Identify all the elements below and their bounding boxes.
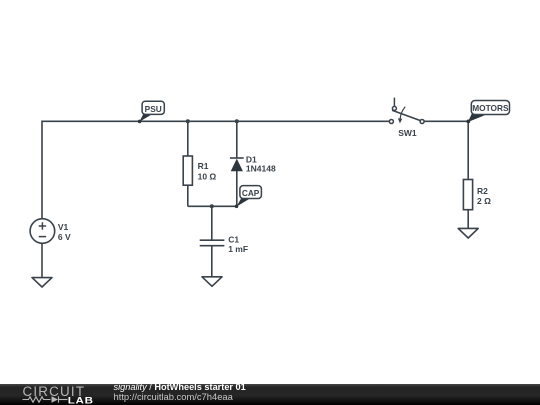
svg-text:LAB: LAB <box>68 397 94 405</box>
wire top rail right segment + R2 branch <box>424 121 468 179</box>
resistor R1 <box>183 156 192 185</box>
svg-text:PSU: PSU <box>145 104 162 114</box>
svg-text:http://circuitlab.com/c7h4eaa: http://circuitlab.com/c7h4eaa <box>114 391 234 402</box>
net flag CAP <box>235 186 262 209</box>
R2 value labels <box>477 186 491 206</box>
voltage source V1 <box>30 219 55 244</box>
svg-text:V1: V1 <box>58 222 69 232</box>
wire C1 top <box>211 206 213 240</box>
ground (V1) <box>32 278 52 287</box>
V1 value labels <box>58 222 71 242</box>
capacitor C1 <box>200 240 225 246</box>
svg-text:1N4148: 1N4148 <box>246 164 276 174</box>
switch SW1 <box>389 98 424 124</box>
diode D1 <box>230 158 244 171</box>
net flag MOTORS <box>466 101 509 124</box>
wire C1 to ground <box>211 246 213 277</box>
wire V1 to ground <box>41 243 43 277</box>
svg-text:CAP: CAP <box>242 188 260 198</box>
wire R2 to ground <box>467 210 469 229</box>
svg-text:2 Ω: 2 Ω <box>477 196 491 206</box>
svg-text:1 mF: 1 mF <box>228 244 248 254</box>
net flag PSU <box>138 101 165 123</box>
svg-text:C1: C1 <box>228 235 239 245</box>
svg-text:SW1: SW1 <box>398 128 417 138</box>
wire R1 top <box>187 121 189 156</box>
svg-text:R1: R1 <box>198 161 209 171</box>
svg-text:6 V: 6 V <box>58 232 71 242</box>
wire D1 bottom <box>236 171 238 207</box>
wire R1 bottom <box>187 185 189 206</box>
svg-text:R2: R2 <box>477 186 488 196</box>
R1 value labels <box>198 161 217 181</box>
junction node (D1 / top rail) <box>235 119 239 123</box>
svg-text:10 Ω: 10 Ω <box>198 171 217 181</box>
junction node (C1 / bottom wire) <box>210 204 214 208</box>
wire top rail left segment + V1 branch <box>42 121 390 219</box>
resistor R2 <box>463 180 472 210</box>
svg-text:MOTORS: MOTORS <box>472 103 509 113</box>
ground (C1) <box>202 277 222 287</box>
ground (R2) <box>458 228 478 238</box>
CircuitLab logo resistor-diode squiggle <box>23 396 68 402</box>
D1 value labels <box>246 155 276 174</box>
wire D1 top <box>236 121 238 158</box>
wire bottom horizontal CAP net <box>188 205 237 207</box>
C1 value labels <box>228 235 248 255</box>
footer bar <box>0 384 540 405</box>
junction node (R1 / top rail) <box>186 119 190 123</box>
